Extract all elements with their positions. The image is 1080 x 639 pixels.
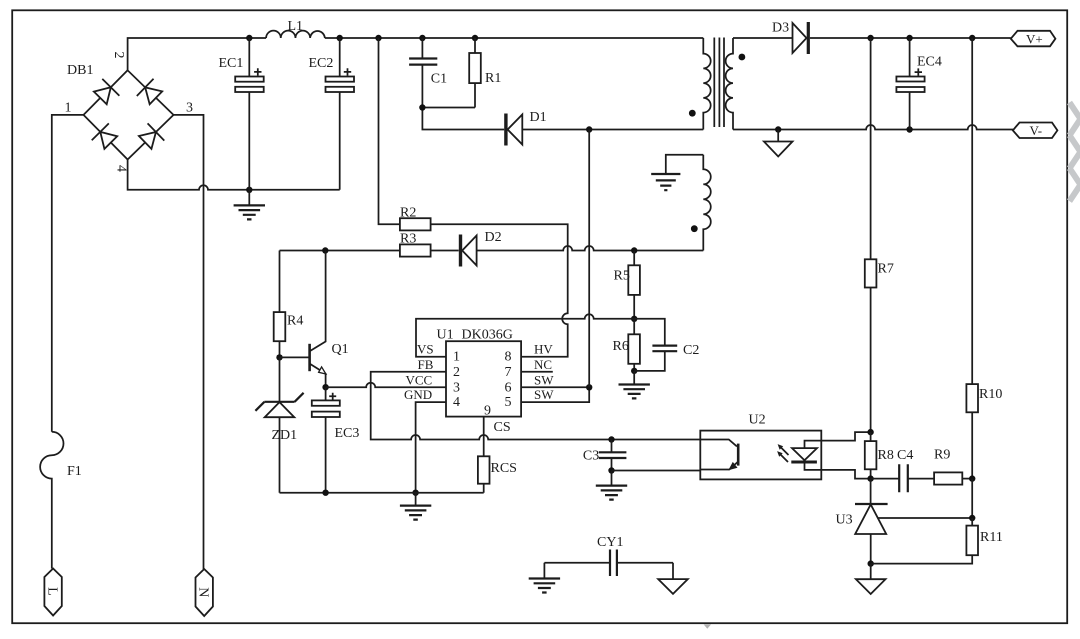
node EC1 top on rail	[246, 35, 252, 41]
resistor R4	[279, 251, 281, 358]
svg-text:V-: V-	[1030, 123, 1043, 138]
svg-text:U1: U1	[437, 328, 454, 343]
wire secondary top to D3	[733, 37, 793, 39]
svg-text:ZD1: ZD1	[272, 428, 298, 443]
watermark triangle bottom	[704, 624, 712, 628]
svg-text:C4: C4	[897, 448, 913, 463]
node D1/SW junction	[586, 126, 592, 132]
svg-text:R11: R11	[980, 530, 1003, 545]
svg-text:C3: C3	[583, 449, 599, 464]
transformer core	[714, 38, 724, 128]
svg-text:V+: V+	[1026, 31, 1043, 46]
U2 LED	[792, 448, 817, 460]
wire bottom rail ZD1/EC3/GND/RCS	[280, 492, 484, 494]
node C3 bottom	[608, 467, 614, 473]
wire SW pin 5	[521, 387, 589, 402]
node Q1 collector junction	[322, 247, 328, 253]
terminal L	[44, 569, 61, 616]
wire SW pin 6	[521, 386, 589, 388]
svg-text:SW: SW	[534, 387, 554, 402]
wire secondary bottom / V- rail with hops	[733, 125, 1013, 130]
node R2 tap on top rail	[375, 35, 381, 41]
svg-text:D3: D3	[772, 21, 789, 36]
ground under EC1	[248, 190, 250, 206]
terminal V-	[1013, 123, 1058, 139]
diode DB1 top-left	[94, 87, 111, 104]
capacitor EC3	[325, 387, 327, 493]
transformer secondary winding	[726, 38, 733, 130]
wire emitter to VCC pin 3 (hop over FB vertical)	[326, 383, 446, 388]
ground at aux winding	[651, 174, 680, 190]
svg-text:U3: U3	[836, 513, 853, 528]
svg-text:HV: HV	[534, 342, 553, 357]
wire R10 vertical from V+	[971, 38, 973, 479]
svg-text:R7: R7	[878, 262, 894, 277]
ground left of CY1	[529, 579, 560, 593]
resistor R5	[633, 251, 635, 319]
aux winding	[703, 155, 710, 251]
node R11 top / U3 ref	[969, 515, 975, 521]
wire top rail to R2	[379, 38, 400, 224]
svg-text:VS: VS	[417, 342, 434, 357]
svg-text:Q1: Q1	[332, 342, 349, 357]
watermark zigzag right edge	[1070, 102, 1080, 201]
wire R7 vertical from V+	[870, 38, 872, 432]
svg-text:EC2: EC2	[309, 56, 334, 71]
svg-text:N: N	[196, 587, 211, 597]
node EC4 bottom on V- rail	[906, 126, 912, 132]
ground at GND pin	[415, 493, 417, 506]
node U3 bottom	[868, 560, 874, 566]
svg-text:D2: D2	[485, 230, 502, 245]
svg-text:R10: R10	[979, 387, 1002, 402]
svg-text:4: 4	[114, 165, 129, 172]
resistor R10	[966, 384, 978, 412]
node R4/base/ZD1 junction	[276, 354, 282, 360]
zener ZD1	[279, 357, 281, 492]
svg-text:EC4: EC4	[917, 55, 942, 70]
svg-text:2: 2	[111, 52, 126, 59]
svg-text:C1: C1	[431, 71, 447, 86]
svg-text:F1: F1	[67, 464, 82, 479]
svg-text:9: 9	[484, 404, 491, 419]
resistor R7	[865, 259, 877, 287]
wire R10 to R11	[971, 479, 973, 518]
capacitor EC2	[339, 38, 341, 190]
svg-text:EC3: EC3	[335, 426, 360, 441]
wire snubber node to D1	[422, 108, 504, 130]
svg-text:NC: NC	[534, 357, 552, 372]
ground triangle right of CY1	[658, 579, 688, 594]
node R8 top	[867, 429, 873, 435]
U2 phototransistor	[700, 440, 737, 447]
wire D1 to transformer primary bottom	[522, 129, 703, 131]
resistor R9	[934, 472, 962, 484]
shunt regulator U3	[870, 479, 872, 504]
svg-text:1: 1	[453, 350, 460, 365]
svg-text:4: 4	[453, 395, 460, 410]
svg-text:3: 3	[186, 101, 193, 116]
resistor R3	[400, 244, 431, 256]
resistor R2	[400, 218, 431, 230]
wire R2 to HV vertical (hops over D2 line and VS line)	[431, 224, 568, 356]
wire CS pin 9 down through RCS	[483, 417, 485, 493]
node R7 top on V+ rail	[867, 35, 873, 41]
svg-text:7: 7	[505, 365, 512, 380]
node R5/R6/VS junction	[631, 316, 637, 322]
node secondary ground junction	[775, 126, 781, 132]
svg-text:DB1: DB1	[67, 63, 93, 78]
capacitor EC1	[248, 38, 250, 190]
node EC3 bottom junction	[322, 490, 328, 496]
svg-text:R2: R2	[400, 206, 416, 221]
resistor R6	[633, 319, 635, 371]
node EC2 top on rail	[337, 35, 343, 41]
svg-text:EC1: EC1	[219, 56, 244, 71]
svg-text:U2: U2	[749, 413, 766, 428]
node R1 top	[472, 35, 478, 41]
resistor R1	[474, 38, 476, 108]
wire SW vertical up to D1/transformer (hops drawn on horiz lines)	[588, 130, 590, 388]
wire top rail with inductor gap	[128, 38, 704, 70]
capacitor EC4	[909, 38, 911, 130]
wire V+ rail	[810, 37, 1011, 39]
capacitor C3	[608, 436, 614, 442]
bridge rectifier DB1	[65, 52, 194, 173]
svg-text:L: L	[45, 587, 60, 596]
svg-text:2: 2	[453, 365, 460, 380]
svg-text:RCS: RCS	[491, 461, 517, 476]
svg-text:CY1: CY1	[597, 535, 623, 550]
wire R3 to D2	[431, 250, 459, 252]
node Q1 emitter junction	[322, 384, 328, 390]
svg-text:6: 6	[505, 380, 512, 395]
diode D1	[504, 114, 507, 146]
terminal V+	[1011, 31, 1056, 47]
aux winding phase dot	[691, 225, 698, 232]
node C1 top	[419, 35, 425, 41]
resistor RCS	[478, 456, 490, 483]
svg-text:R4: R4	[287, 314, 303, 329]
svg-text:1: 1	[65, 101, 72, 116]
svg-text:R3: R3	[400, 232, 416, 247]
wire aux top to ground	[666, 155, 704, 174]
wire AC line L input: node1 to fuse	[52, 115, 84, 432]
inductor L1	[266, 31, 325, 38]
node EC1 bottom junction	[246, 187, 252, 193]
diode D2	[459, 235, 462, 267]
diode DB1 bottom-right	[139, 132, 156, 149]
ground under C3	[611, 471, 613, 486]
svg-text:GND: GND	[404, 387, 432, 402]
wire NC pin 7 stub	[521, 371, 553, 373]
svg-text:DK036G: DK036G	[462, 328, 513, 343]
wire R3/D2 line from R4 corner	[280, 250, 400, 252]
svg-text:R9: R9	[934, 448, 950, 463]
node R8 bottom	[867, 475, 873, 481]
transformer secondary phase dot	[739, 54, 746, 61]
svg-text:R1: R1	[485, 71, 501, 86]
ground triangle at secondary	[777, 130, 779, 142]
capacitor C2	[634, 319, 665, 371]
node R5 top	[631, 247, 637, 253]
svg-text:SW: SW	[534, 372, 554, 387]
capacitor C4	[871, 478, 935, 480]
diode D3	[793, 23, 807, 53]
ground under R6	[633, 371, 635, 384]
svg-text:8: 8	[505, 350, 512, 365]
wire GND pin 4 down	[416, 402, 446, 493]
node R9/R10 junction	[969, 475, 975, 481]
diode DB1 top-right	[145, 87, 162, 104]
svg-text:C2: C2	[683, 343, 699, 358]
svg-text:FB: FB	[418, 357, 434, 372]
transformer T1 primary winding	[703, 38, 710, 130]
node R6 bottom	[631, 368, 637, 374]
optocoupler U2 box	[700, 431, 821, 480]
svg-text:D1: D1	[530, 110, 547, 125]
wire C3 bottom to U2 emitter	[612, 470, 701, 472]
wire FB pin 2 down and across (hops over GND and CS verticals)	[371, 372, 701, 440]
wire VS pin 1 to R5/R6 junction (vertical hop at HV line, horiz hop at SW vertical)	[416, 314, 634, 356]
transformer primary phase dot	[689, 110, 696, 117]
node SW junction	[586, 384, 592, 390]
resistor R11	[871, 518, 973, 564]
U2 light arrows	[780, 447, 789, 463]
node GND/bottom rail	[412, 490, 418, 496]
ground triangle under U3	[870, 564, 872, 580]
wire D2 to aux winding (hops over two verticals)	[477, 246, 704, 251]
op-amp/controller U1 box	[446, 341, 521, 416]
resistor R8	[870, 432, 872, 479]
wire U3 ref to R10/R11 junction	[878, 517, 972, 519]
transistor Q1	[280, 356, 309, 358]
fuse F1	[40, 432, 63, 569]
terminal N	[196, 569, 213, 616]
wire bridge bottom to ground rail (hop over N line)	[128, 160, 340, 190]
capacitor CY1	[544, 563, 673, 579]
capacitor C1	[421, 38, 423, 108]
svg-text:VCC: VCC	[406, 372, 433, 387]
wire AC line N: node3 down	[174, 115, 204, 569]
svg-text:5: 5	[505, 395, 512, 410]
node R10 top on V+ rail	[969, 35, 975, 41]
svg-text:R6: R6	[613, 339, 629, 354]
svg-text:R5: R5	[614, 269, 630, 284]
svg-text:CS: CS	[494, 420, 511, 435]
svg-text:L1: L1	[288, 19, 304, 34]
svg-text:R8: R8	[878, 448, 894, 463]
svg-text:3: 3	[453, 380, 460, 395]
diode DB1 bottom-left	[100, 132, 117, 149]
node EC4 top on V+ rail	[906, 35, 912, 41]
